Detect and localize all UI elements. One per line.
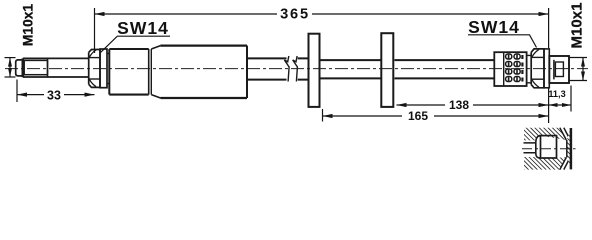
crimp sleeve stage 1	[109, 49, 148, 95]
crimp sleeve stage 2	[161, 46, 248, 98]
dimension M10x1 right ticks	[570, 57, 588, 59]
svg-text:165: 165	[408, 109, 428, 123]
detail section: bottom hatched wall	[524, 157, 567, 170]
dimension 138	[397, 104, 446, 106]
svg-text:365: 365	[280, 7, 310, 23]
svg-text:138: 138	[449, 98, 469, 112]
leader SW14 right	[468, 35, 537, 48]
extension line 11,3 right	[570, 86, 572, 112]
svg-text:M10x1: M10x1	[20, 4, 35, 47]
svg-text:11,3: 11,3	[548, 89, 565, 99]
svg-text:M10x1: M10x1	[569, 3, 586, 49]
mounting disc 1	[309, 34, 320, 107]
detail end face	[566, 140, 568, 157]
extension line disc1	[322, 109, 324, 122]
extension line bolt tip	[16, 80, 18, 103]
hex nut SW14 right	[530, 52, 532, 84]
detail flare dome	[536, 136, 541, 158]
bolt outer diameter lines	[23, 57, 89, 59]
crimp knurl marks	[506, 54, 523, 82]
neck before right nut	[527, 55, 532, 82]
svg-text:33: 33	[47, 88, 61, 102]
break symbol zigzag 2	[293, 56, 298, 82]
dimension 365 arrows	[95, 12, 105, 16]
female bore box	[555, 62, 563, 77]
hex nut SW14 left	[88, 52, 90, 84]
dimension M10x1 left line and arrows	[9, 58, 11, 77]
bolt male thread tip	[16, 60, 22, 76]
hose segment A	[247, 58, 287, 79]
nut washer flange right	[544, 49, 549, 88]
bolt thread start edge	[21, 58, 24, 77]
bolt thread runout line	[47, 58, 49, 77]
svg-text:SW14: SW14	[117, 18, 169, 38]
dimension 33	[17, 94, 44, 96]
centerline main axis	[5, 68, 588, 70]
dimension M10x1 right line and arrows	[582, 58, 584, 81]
right sleeve inner edge	[503, 52, 505, 86]
sleeve taper	[151, 46, 160, 98]
sleeve step edge	[148, 49, 150, 95]
extension line right 365	[548, 8, 550, 48]
right crimp sleeve	[494, 52, 526, 86]
leader SW14 left	[101, 36, 170, 52]
bolt thread root box	[24, 60, 47, 74]
detail centerline	[522, 148, 576, 150]
extension line left 365	[94, 8, 96, 53]
detail flare body	[541, 136, 557, 158]
neck between nut and sleeve	[107, 53, 109, 55]
detail section: top hatched wall	[524, 128, 567, 141]
hose segment C	[321, 60, 381, 78]
svg-text:SW14: SW14	[468, 17, 520, 37]
nut washer flange left	[100, 49, 107, 88]
dimension M10x1 left ticks	[5, 57, 16, 59]
dimension 11,3	[549, 104, 572, 106]
detail pipe walls	[524, 143, 536, 153]
hose segment D	[395, 60, 495, 78]
break symbol zigzag 1	[284, 56, 289, 82]
female end cylinder	[549, 56, 569, 83]
detail cone seat bottom	[560, 157, 570, 169]
detail right wall hatch	[567, 128, 571, 169]
hose segment B	[298, 58, 308, 79]
mounting disc 2	[381, 33, 393, 107]
sleeve right end edge	[246, 46, 248, 98]
detail cone seat top	[560, 128, 570, 140]
dimension 165	[323, 115, 403, 117]
dimension 365 line	[95, 13, 278, 15]
female bore inner edge	[553, 60, 555, 80]
